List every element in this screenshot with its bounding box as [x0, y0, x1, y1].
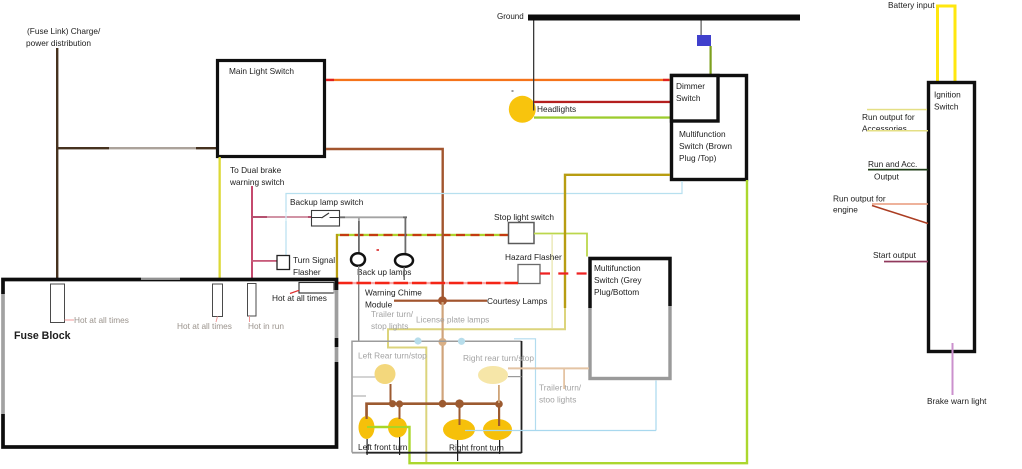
wire black lamp ground 4 — [499, 440, 500, 454]
svg-text:Battery input: Battery input — [888, 0, 935, 10]
svg-text:Flasher: Flasher — [293, 267, 321, 277]
svg-text:Turn Signal: Turn Signal — [293, 255, 335, 265]
svg-text:Main Light Switch: Main Light Switch — [229, 66, 294, 76]
svg-text:Left front turn: Left front turn — [358, 442, 408, 452]
svg-text:Run and Acc.: Run and Acc. — [868, 159, 917, 169]
svg-text:Hot at all times: Hot at all times — [177, 321, 232, 331]
wire brown stub down lamp3 — [459, 404, 461, 425]
wire tan stub down — [563, 369, 565, 389]
svg-text:Courtesy Lamps: Courtesy Lamps — [487, 296, 547, 306]
watermark smudges — [0, 143, 403, 414]
wire khaki accessory 2 — [867, 130, 928, 132]
svg-text:power distribution: power distribution — [26, 38, 91, 48]
component Dimmer Switch — [672, 76, 719, 122]
wire brown lamp bus — [367, 404, 501, 418]
component rear lamp module box — [352, 341, 522, 453]
wire faint khaki vertical — [552, 234, 553, 328]
wire light blue from grey areas to brown plug bottom — [286, 181, 682, 256]
wire greenyellow stop output — [534, 234, 587, 257]
svg-text:Brake warn light: Brake warn light — [927, 396, 987, 406]
svg-text:engine: engine — [833, 205, 858, 215]
wire salmon engine — [872, 203, 928, 205]
label run and acc output — [868, 159, 917, 182]
svg-text:Back up lamps: Back up lamps — [357, 267, 411, 277]
lamp left front turn b — [388, 418, 407, 438]
node grey speck — [512, 90, 514, 92]
wire brown stub down lamp2 — [399, 404, 401, 419]
svg-text:Plug /Top): Plug /Top) — [679, 153, 717, 163]
svg-text:Accessories: Accessories — [862, 124, 907, 134]
node light blue dot left — [414, 337, 421, 344]
node To Dual brake warning switch label — [229, 165, 285, 187]
lamp left rear turn — [375, 364, 396, 384]
svg-text:Run output for: Run output for — [833, 194, 886, 204]
wire ground drop to headlights — [533, 21, 534, 111]
wire pink to turn signal flasher — [251, 260, 277, 262]
wire black lamp ground 3 — [457, 440, 458, 461]
svg-text:Run output for: Run output for — [862, 112, 915, 122]
fuse 1 — [51, 284, 65, 323]
fuse 3 — [248, 284, 257, 317]
component Ignition Switch — [929, 83, 975, 352]
component Hazard Flasher — [505, 252, 562, 284]
wire tan courtesy drop — [442, 302, 444, 403]
component Backup lamp switch — [290, 197, 364, 226]
svg-text:Switch: Switch — [934, 102, 959, 112]
wire brown stub up left rear — [390, 384, 392, 403]
svg-text:Module: Module — [365, 300, 393, 310]
node light blue dot right — [458, 338, 465, 345]
svg-text:License plate lamps: License plate lamps — [416, 315, 489, 325]
svg-text:(Fuse Link) Charge/: (Fuse Link) Charge/ — [27, 26, 101, 36]
wire grey drop to left backup lamp — [358, 217, 360, 253]
component Multifunction Switch (Brown Plug/Top) — [672, 76, 747, 180]
wire greenyellow front turn link — [367, 426, 410, 428]
wire black lamp ground 1 — [367, 439, 368, 455]
wire pink to backup lamp switch — [251, 216, 312, 218]
wire yellow battery loop — [938, 6, 956, 81]
svg-text:Dimmer: Dimmer — [676, 81, 705, 91]
wire grey backup lamp feed — [340, 216, 407, 218]
svg-text:Multifunction: Multifunction — [679, 129, 726, 139]
label hot at all times 2 — [177, 317, 232, 332]
svg-text:Fuse Block: Fuse Block — [14, 330, 71, 342]
wire dark yellow from brown plug — [565, 175, 670, 308]
svg-text:Multifunction: Multifunction — [594, 263, 641, 273]
svg-text:Trailer turn/: Trailer turn/ — [539, 383, 582, 393]
node bus junction 3 — [439, 400, 447, 408]
label run output for accessories — [862, 112, 915, 134]
wire grey right rear stub — [508, 376, 522, 377]
wire plum brake warn — [952, 343, 954, 395]
wire dark brown charge feed vertical — [56, 48, 58, 278]
fuse hot box — [299, 283, 334, 294]
wire yellowgreen low beam — [534, 116, 671, 118]
wire red dashed fuse to hazard flasher — [337, 282, 518, 284]
lamp back up left — [351, 253, 365, 266]
svg-text:Switch: Switch — [676, 93, 701, 103]
svg-text:Headlights: Headlights — [537, 104, 576, 114]
ground bus bar — [528, 15, 800, 21]
label hot at all times 1 — [65, 315, 129, 325]
component Turn Signal Flasher — [277, 255, 335, 277]
wire light blue trailer rectangle — [514, 339, 656, 431]
label trailer turn stoo lights — [539, 383, 582, 405]
label trailer turn stop lights — [371, 309, 414, 331]
svg-text:Backup lamp switch: Backup lamp switch — [290, 197, 364, 207]
svg-text:Hot in run: Hot in run — [248, 321, 284, 331]
svg-text:Switch (Brown: Switch (Brown — [679, 141, 732, 151]
svg-text:Hot at all times: Hot at all times — [74, 315, 129, 325]
svg-text:Ignition: Ignition — [934, 90, 961, 100]
component Stop light switch — [494, 212, 554, 244]
lamp back up right — [395, 254, 413, 267]
wire red stub right — [663, 79, 669, 81]
wire light blue trailer bottom — [465, 430, 656, 432]
label warning chime module — [365, 288, 422, 310]
svg-text:Plug/Bottom: Plug/Bottom — [594, 287, 639, 297]
wire dark green run acc — [868, 169, 928, 171]
svg-text:Warning Chime: Warning Chime — [365, 288, 422, 298]
wire brown stub down lamp4 — [498, 404, 500, 426]
wire ground drop to dimmer — [701, 21, 702, 36]
svg-text:warning switch: warning switch — [229, 177, 285, 187]
wire olive ground to dimmer switch — [710, 46, 712, 74]
lamp headlights — [509, 96, 536, 123]
wire grey below left backup lamp — [358, 266, 359, 341]
svg-text:stoo lights: stoo lights — [539, 395, 576, 405]
node (Fuse Link) Charge/power distribution label — [26, 26, 101, 48]
wire khaki accessory 1 — [867, 109, 927, 111]
lamp right rear turn — [478, 366, 508, 384]
svg-text:Right rear turn/stop: Right rear turn/stop — [463, 353, 534, 363]
node bus junction 1 — [389, 400, 396, 407]
wire dark red high beam — [534, 101, 671, 103]
wire chartreuse trailer feed right side — [367, 180, 747, 463]
component Multifunction Switch (Grey Plug/Bottom) — [590, 259, 670, 379]
lamp left front turn a — [359, 416, 375, 439]
connector blue plug — [697, 35, 711, 46]
wire yellow fuse feed from main light switch — [219, 157, 221, 278]
svg-text:Ground: Ground — [497, 12, 524, 21]
wire crimson dual brake vertical — [251, 186, 253, 278]
svg-text:Right front turn: Right front turn — [449, 443, 504, 453]
label run output for engine — [833, 194, 886, 215]
wire red dashed hazard to grey plug — [540, 272, 588, 274]
wire dark brown branch to Main Light Switch — [56, 147, 217, 149]
svg-text:Hazard Flasher: Hazard Flasher — [505, 252, 562, 262]
svg-text:Output: Output — [874, 172, 900, 182]
wire brown courtesy — [394, 300, 487, 302]
wire grey below right backup lamp — [404, 267, 405, 280]
wire dark yellow drop to fuse block — [336, 234, 338, 279]
wire brown from main light switch to courtesy node — [326, 149, 443, 300]
node courtesy junction — [438, 296, 447, 305]
wire tan right rear to grey plug — [508, 367, 589, 369]
lamp right front turn a — [443, 419, 475, 440]
wire orange headlight feed — [326, 79, 671, 81]
svg-text:Switch (Grey: Switch (Grey — [594, 275, 642, 285]
wire black lamp ground 2 — [399, 437, 400, 455]
wire greenyellow stop light feed with red dashes — [336, 234, 509, 236]
node bus junction 5 — [495, 400, 503, 408]
wire grey drop to right backup lamp — [405, 217, 407, 254]
svg-text:Left Rear turn/stop: Left Rear turn/stop — [358, 351, 427, 361]
svg-text:Trailer turn/: Trailer turn/ — [371, 309, 414, 319]
wire maroon start — [884, 261, 928, 263]
wire tan stub up right rear — [498, 385, 500, 403]
wire pale khaki continuation — [388, 308, 565, 462]
label hot in run — [248, 316, 284, 331]
svg-text:To Dual brake: To Dual brake — [230, 165, 282, 175]
component Main Light Switch — [218, 61, 325, 157]
svg-text:Start output: Start output — [873, 250, 917, 260]
wire red stub left — [326, 79, 334, 81]
svg-text:stop lights: stop lights — [371, 321, 408, 331]
node red speck — [377, 249, 380, 251]
node tan junction — [439, 338, 447, 346]
svg-text:Hot at all times: Hot at all times — [272, 293, 327, 303]
wire dark red engine diagonal — [872, 206, 928, 224]
lamp right front turn b — [483, 419, 512, 440]
component Fuse Block — [3, 280, 337, 448]
label hot at all times top right — [272, 290, 327, 303]
node bus junction 2 — [396, 400, 403, 407]
fuse 2 — [213, 284, 223, 317]
svg-text:Stop light switch: Stop light switch — [494, 212, 554, 222]
wire brown stub into lamp1 — [366, 404, 368, 419]
node bus junction 4 — [455, 399, 464, 408]
